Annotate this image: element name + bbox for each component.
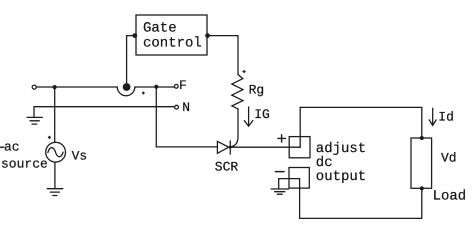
- node SCR junction: [229, 146, 232, 149]
- polarity mark near source: [48, 136, 52, 140]
- wire minus connector down to bottom rail: [299, 179, 301, 219]
- label ac source: [1, 140, 48, 172]
- polarity mark near Rg: [242, 70, 246, 74]
- node pickup dot on F line: [123, 83, 131, 91]
- node load top: [420, 136, 424, 140]
- svg-text:F: F: [179, 78, 187, 93]
- SCR Q1: [217, 141, 230, 154]
- connector minus square: [289, 168, 309, 189]
- wire F line hump (passes under pickup): [117, 87, 135, 96]
- wire gate control right to resistor Rg: [208, 36, 238, 75]
- connector plus square: [289, 137, 310, 158]
- svg-text:IG: IG: [254, 107, 270, 122]
- ac source Vs: [46, 142, 66, 162]
- wire load bottom to bottom rail: [300, 188, 422, 218]
- node right pin of gate control: [205, 33, 210, 38]
- arrow Id: [429, 108, 436, 125]
- wire minus connector from ground: [279, 179, 300, 189]
- terminal F: [174, 84, 178, 88]
- tiny mark near pickup: [142, 91, 145, 94]
- gate control box: [136, 15, 207, 55]
- wire plus connector up to top rail: [299, 107, 301, 147]
- wire N line: [34, 106, 175, 108]
- label Vd: [441, 151, 457, 166]
- svg-text:source: source: [1, 156, 48, 171]
- svg-text:SCR: SCR: [215, 159, 239, 174]
- label N: [182, 100, 190, 115]
- wire source bottom: [54, 162, 56, 188]
- wire Rg to SCR gate: [231, 109, 238, 147]
- label IG: [254, 107, 270, 122]
- svg-text:control: control: [143, 35, 202, 51]
- label SCR: [215, 159, 239, 174]
- ac source sine: [48, 148, 63, 157]
- wire gate control left to pickup dot: [127, 36, 135, 84]
- wire source top: [54, 87, 56, 142]
- wire top rail to load: [300, 107, 422, 137]
- node junction F line to source: [53, 85, 57, 89]
- label Load: [433, 189, 467, 205]
- node load bottom: [420, 186, 424, 190]
- node junction on F line: [154, 85, 158, 89]
- wire junction down to SCR anode: [156, 87, 217, 147]
- label Id: [438, 109, 454, 124]
- gate control label: [143, 21, 202, 52]
- arrow IG: [244, 107, 252, 126]
- label adjust dc output: [316, 141, 366, 185]
- ground at source: [47, 189, 62, 196]
- svg-text:Gate: Gate: [143, 21, 177, 37]
- svg-text:Load: Load: [433, 189, 467, 205]
- svg-text:Rg: Rg: [249, 83, 265, 98]
- svg-text:Vs: Vs: [72, 148, 88, 163]
- ground at N line: [27, 107, 42, 124]
- svg-text:N: N: [182, 100, 190, 115]
- svg-text:Id: Id: [438, 109, 454, 124]
- label plus: [278, 135, 286, 142]
- ground at minus connector: [271, 189, 288, 194]
- wire F line left segment: [36, 86, 117, 88]
- terminal left of F line: [32, 85, 36, 89]
- clipped dash before ac: [0, 146, 4, 148]
- label minus: [275, 171, 284, 173]
- svg-text:output: output: [316, 169, 366, 185]
- wire SCR cathode to plus connector: [230, 146, 300, 148]
- svg-text:Vd: Vd: [441, 151, 457, 166]
- load resistor: [411, 138, 432, 188]
- resistor Rg: [232, 75, 243, 109]
- wire F line right segment: [135, 86, 175, 88]
- label Rg: [249, 83, 265, 98]
- node left pin of gate control: [132, 33, 137, 38]
- svg-text:ac: ac: [4, 140, 20, 155]
- terminal N: [175, 105, 179, 109]
- label F: [179, 78, 187, 93]
- label Vs: [72, 148, 88, 163]
